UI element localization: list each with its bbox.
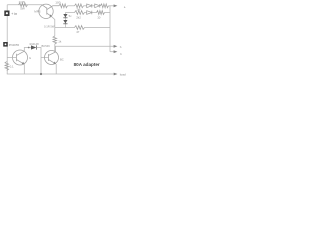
zener ZD1 — [63, 14, 67, 17]
resistor R9 0,1 vertical — [5, 62, 9, 71]
svg-text:10: 10 — [97, 15, 101, 19]
junction dot on bottom rail — [40, 73, 42, 75]
svg-text:G: G — [29, 56, 31, 60]
arrow terminal L1 — [114, 45, 118, 48]
resistor R3 row1 — [75, 4, 84, 8]
wire L1 — [55, 45, 115, 47]
resistor R6 row2 — [75, 11, 85, 15]
arrow terminal row1 — [114, 4, 118, 7]
wire: left vertical bus — [6, 5, 8, 74]
svg-text:BC: BC — [60, 57, 64, 61]
resistor R1 shunt — [19, 3, 28, 7]
arrow terminal L2 — [114, 50, 118, 53]
junction dot — [28, 47, 30, 49]
resistor R8 row3 — [75, 26, 85, 30]
wire row3 to bus — [85, 27, 111, 29]
bottom rail — [7, 73, 115, 75]
svg-text:100: 100 — [55, 0, 60, 4]
resistor R7 row2 — [97, 11, 105, 15]
wire row3 — [55, 27, 75, 29]
svg-text:5W: 5W — [20, 7, 25, 11]
wire L2 stub — [110, 51, 115, 53]
wire: right bus vertical — [109, 6, 111, 52]
svg-text:1N4148: 1N4148 — [29, 42, 39, 46]
wire: D3 to vertical node line — [36, 48, 41, 75]
wire row2 to bus — [105, 12, 111, 14]
wire row1 — [84, 5, 87, 7]
resistor R4 row1 — [101, 4, 109, 8]
wire: T3 emitter down — [55, 64, 57, 74]
resistor R5 vertical — [53, 36, 57, 44]
svg-text:load: load — [120, 72, 126, 76]
resistor R2 100 — [59, 4, 68, 8]
emitter arrow T3 — [53, 62, 56, 64]
svg-text:PN3055: PN3055 — [9, 43, 20, 47]
diode D2 row1 — [95, 4, 100, 8]
zener stack wire — [64, 13, 66, 28]
wire: T1 emitter down — [52, 17, 55, 36]
wire: top rail left section — [7, 4, 42, 6]
svg-text:1k: 1k — [58, 40, 62, 44]
svg-text:0.1R 5W: 0.1R 5W — [44, 25, 55, 29]
diode D3 — [31, 45, 36, 49]
wire to terminal — [109, 5, 115, 7]
zener ZD2 — [63, 20, 67, 23]
diode D4 row2 — [87, 11, 92, 15]
wire row2 — [65, 12, 74, 14]
svg-text:+ in: + in — [11, 12, 17, 16]
transistor T1 MPS — [39, 4, 53, 18]
terminal J1 + input — [4, 11, 9, 17]
node square J2 — [3, 42, 8, 47]
wire to L1/T3 — [54, 44, 56, 52]
svg-text:b: b — [120, 45, 122, 49]
svg-text:5x: 5x — [69, 14, 72, 18]
wire: T2 emitter down — [23, 64, 25, 74]
svg-text:b: b — [120, 52, 122, 56]
svg-text:47: 47 — [76, 30, 80, 34]
transistor T3 — [45, 51, 59, 65]
svg-text:80A adapter: 80A adapter — [74, 62, 100, 67]
wire row1 — [68, 5, 75, 7]
svg-text:BC546: BC546 — [42, 44, 51, 48]
svg-text:2k2: 2k2 — [76, 16, 81, 20]
svg-text:MPS: MPS — [34, 9, 40, 13]
transistor T2 — [13, 50, 28, 65]
emitter arrow T1 — [49, 14, 52, 16]
svg-text:0,05: 0,05 — [19, 0, 25, 4]
svg-text:+: + — [124, 6, 126, 10]
svg-text:0,1: 0,1 — [10, 64, 14, 68]
diode D1 row1 — [87, 4, 92, 8]
emitter arrow T2 — [22, 62, 25, 64]
wire: node line to T3 base — [41, 57, 49, 59]
arrow terminal bottom — [114, 73, 118, 76]
wire: T2 collector up — [24, 48, 31, 52]
wire: T3 collector up — [55, 46, 57, 52]
